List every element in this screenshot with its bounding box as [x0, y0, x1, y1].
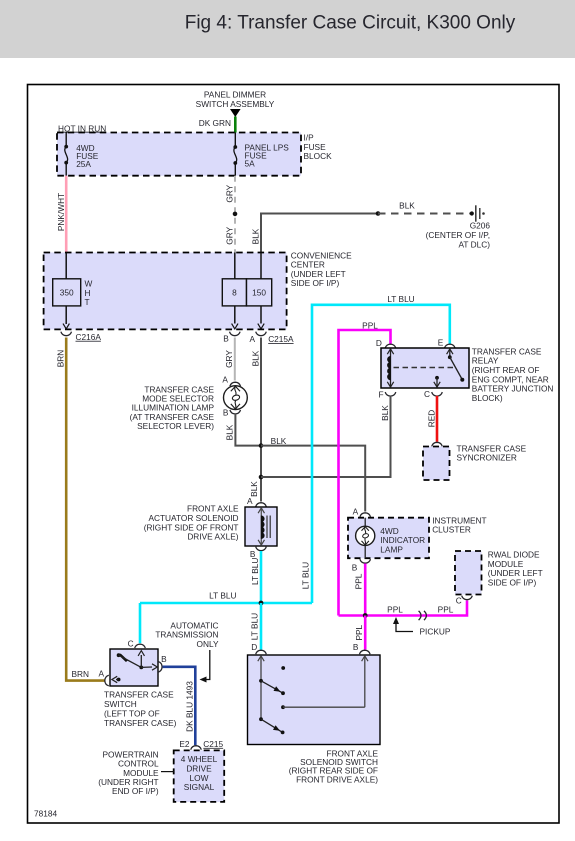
lamp 4WD indicator lamp [356, 518, 375, 559]
node: I/P FUSE BLOCK label [304, 133, 333, 162]
svg-text:78184: 78184 [34, 809, 57, 819]
svg-text:BLK: BLK [249, 481, 259, 497]
wire DK GRN from panel dimmer switch to panel lps fuse [234, 117, 237, 133]
svg-text:T: T [85, 297, 90, 307]
node: FRONT AXLE SOLENOID SWITCH label [289, 748, 379, 784]
wire DK BLU 1493 from switch pin B to PCM [163, 667, 196, 746]
wire PPL from instrument cluster pin B to junction [364, 564, 367, 616]
svg-text:SIDE OF I/P): SIDE OF I/P) [291, 278, 340, 288]
node: RWAL DIODE MODULE label [488, 550, 543, 588]
svg-text:5A: 5A [245, 158, 256, 168]
svg-text:350: 350 [60, 287, 74, 297]
transfer case switch internals [112, 651, 157, 683]
svg-text:LT BLU: LT BLU [300, 562, 310, 589]
svg-text:E2: E2 [179, 739, 190, 749]
svg-text:DRIVE AXLE): DRIVE AXLE) [187, 532, 238, 542]
wires into fuses 8 and 150 inside convenience center [234, 253, 236, 279]
svg-text:BRN: BRN [72, 669, 90, 679]
svg-text:BLK: BLK [380, 405, 390, 421]
relay actuation dashed link [394, 367, 454, 369]
svg-text:C216A: C216A [76, 332, 102, 342]
wire with arrow from 350 to C216A [65, 306, 67, 324]
connector C216A [61, 332, 72, 336]
title bar [0, 0, 575, 58]
svg-text:FRONT DRIVE AXLE): FRONT DRIVE AXLE) [296, 774, 378, 784]
svg-text:DK BLU 1493: DK BLU 1493 [184, 681, 194, 732]
node: front axle actuator solenoid label [144, 504, 239, 542]
svg-text:DK GRN: DK GRN [199, 118, 231, 128]
transfer case syncronizer connector [432, 442, 443, 446]
relay U1 transfer case relay box [381, 348, 469, 388]
svg-text:B: B [223, 407, 229, 417]
node: WHT marking [85, 279, 93, 307]
svg-text:BRN: BRN [55, 350, 65, 368]
wire BLK from convenience center up to ground run [261, 214, 378, 253]
svg-text:PNK/WHT: PNK/WHT [56, 193, 66, 231]
inline connector on PPL wire [419, 611, 421, 620]
svg-text:PPL: PPL [438, 605, 454, 615]
svg-text:A: A [353, 507, 359, 517]
svg-text:LT BLU: LT BLU [209, 590, 236, 600]
svg-text:D: D [251, 642, 257, 652]
svg-text:150: 150 [252, 287, 266, 297]
node: PICKUP callout [393, 617, 451, 636]
wire RED from relay pin C to syncronizer [436, 396, 439, 442]
solenoid L1 front axle actuator solenoid box [245, 507, 277, 546]
node: feed triangle from panel dimmer switch [230, 109, 241, 117]
svg-text:SWITCH ASSEMBLY: SWITCH ASSEMBLY [196, 99, 275, 109]
wire LT BLU from solenoid pin B to junction [260, 551, 263, 603]
svg-text:D: D [376, 338, 382, 348]
instrument cluster (dashed box) [348, 518, 429, 559]
svg-text:8: 8 [232, 287, 237, 297]
svg-text:CLUSTER: CLUSTER [432, 525, 471, 535]
node: AUTOMATIC TRANSMISSION ONLY callout [155, 620, 219, 682]
svg-text:BLK: BLK [225, 424, 235, 440]
junction dot BLK at 445.6 [259, 443, 264, 448]
svg-text:A: A [99, 668, 105, 678]
relay switch blade [434, 349, 465, 388]
ground G206 [426, 205, 491, 249]
wire BLK dashed to G206 [378, 213, 470, 215]
svg-text:SWITCH: SWITCH [104, 699, 137, 709]
convenience center (dashed box) [44, 253, 287, 330]
fuse element 150 [247, 279, 272, 306]
connector C215A pin A [256, 332, 267, 336]
svg-text:C215A: C215A [268, 334, 294, 344]
junction dot LT BLU [259, 601, 264, 606]
wire GRY from C215A pin B to illumination lamp [234, 338, 236, 381]
svg-text:PANEL DIMMER: PANEL DIMMER [204, 89, 266, 99]
svg-text:RED: RED [426, 410, 436, 428]
junction dot PPL [363, 613, 368, 618]
svg-text:A: A [250, 334, 256, 344]
switch S2 front axle solenoid switch box [248, 655, 381, 745]
wire PPL from relay pin D [339, 330, 391, 616]
PCM 4 wheel drive low signal (dashed box) [174, 750, 225, 802]
svg-text:BLOCK): BLOCK) [472, 393, 503, 403]
node: TRANSFER CASE SWITCH label [104, 690, 177, 729]
svg-text:GRY: GRY [224, 350, 234, 368]
wire BLK branch to instrument cluster pin A [261, 446, 365, 512]
svg-text:TRANSFER CASE: TRANSFER CASE [104, 690, 174, 700]
leader line from MODULE to PCM box [161, 771, 174, 773]
svg-text:GRY: GRY [224, 226, 234, 244]
svg-text:SIDE OF I/P): SIDE OF I/P) [488, 577, 537, 587]
node: TRANSFER CASE SYNCRONIZER label [457, 443, 527, 462]
wire BRN from C216A to transfer case switch [66, 338, 104, 681]
svg-text:C: C [424, 389, 430, 399]
svg-text:LT BLU: LT BLU [250, 558, 260, 585]
svg-text:B: B [250, 549, 256, 559]
node: transfer case mode selector illumination lamp label [130, 384, 215, 431]
svg-text:BLK: BLK [399, 201, 415, 211]
wire LT BLU top run from relay pin E [312, 305, 450, 603]
fuse element 350 [53, 279, 81, 306]
I/P fuse block (dashed box) [57, 133, 301, 176]
svg-text:LAMP: LAMP [380, 544, 403, 554]
svg-text:AT DLC): AT DLC) [458, 239, 490, 249]
lamp transfer case mode selector illumination lamp [224, 386, 248, 410]
svg-text:GRY: GRY [224, 184, 234, 202]
wire PPL down to front axle solenoid switch pin B [364, 616, 367, 650]
RWAL diode module (dashed box) [455, 551, 482, 595]
svg-text:F: F [378, 389, 383, 399]
svg-text:SYNCRONIZER: SYNCRONIZER [457, 453, 517, 463]
svg-text:C: C [128, 639, 134, 649]
node: POWERTRAIN CONTROL MODULE label [98, 749, 159, 796]
wire with arrow from 8 to C215A pin B [234, 306, 236, 324]
wire LT BLU horizontal run [140, 602, 312, 605]
fuse 4WD FUSE 25A [64, 133, 98, 176]
wire LT BLU down to front axle solenoid switch pin D [260, 603, 263, 650]
node: CONVENIENCE CENTER label [291, 250, 352, 288]
svg-text:PPL: PPL [354, 624, 364, 640]
svg-text:END OF I/P): END OF I/P) [112, 786, 159, 796]
wire LT BLU down to transfer case switch pin C [139, 603, 142, 643]
svg-text:PPL: PPL [354, 573, 364, 589]
wire BLK from lamp pin B down to junction [235, 414, 261, 446]
svg-text:BLOCK: BLOCK [304, 151, 333, 161]
wire with arrow from 150 to C215A pin A [260, 306, 262, 324]
transfer case syncronizer (dashed box) [423, 447, 450, 481]
junction dot BLK at 477 [259, 475, 264, 480]
svg-text:ONLY: ONLY [197, 639, 219, 649]
svg-text:C: C [456, 596, 462, 606]
wire BLK trunk from C215A pin A down to front axle actuator solenoid [260, 338, 262, 502]
svg-text:BLK: BLK [271, 436, 287, 446]
wire PPL horizontal run to RWAL diode module [339, 601, 468, 616]
svg-text:LT BLU: LT BLU [249, 613, 259, 640]
junction dot on BLK ground run [376, 211, 381, 216]
relay coil [387, 349, 393, 388]
svg-text:25A: 25A [76, 159, 91, 169]
svg-text:C215: C215 [203, 739, 223, 749]
svg-text:E: E [438, 338, 444, 348]
wire BLK branch to transfer case relay pin F [261, 397, 391, 477]
svg-text:PICKUP: PICKUP [420, 626, 451, 636]
svg-text:B: B [161, 654, 167, 664]
svg-text:SIGNAL: SIGNAL [184, 782, 215, 792]
svg-text:B: B [352, 562, 358, 572]
node: INSTRUMENT CLUSTER label [432, 515, 486, 534]
connector C215A pin B [230, 332, 241, 336]
svg-text:A: A [222, 374, 228, 384]
svg-text:BLK: BLK [250, 228, 260, 244]
svg-text:PPL: PPL [387, 605, 403, 615]
junction dot on GRY wire [233, 212, 238, 217]
fuse PANEL LPS FUSE 5A [233, 133, 289, 176]
wire GRY dashed from panel lps fuse to convenience center [234, 176, 236, 253]
svg-text:PPL: PPL [362, 321, 378, 331]
node: TRANSFER CASE RELAY label [472, 346, 554, 403]
svg-text:A: A [247, 496, 253, 506]
svg-text:TRANSFER CASE): TRANSFER CASE) [104, 718, 177, 728]
svg-text:B: B [223, 334, 229, 344]
node: 4WD INDICATOR LAMP label [380, 526, 425, 555]
switch S1 transfer case switch box [110, 649, 158, 686]
svg-text:Fig 4: Transfer Case Circuit,: Fig 4: Transfer Case Circuit, K300 Only [185, 13, 516, 34]
node: panel dimmer switch assembly label [196, 89, 275, 109]
wire into fuse 350 inside convenience center [65, 253, 67, 279]
solenoid coil internals [258, 508, 270, 546]
fuse element 8 [222, 279, 246, 306]
svg-text:BLK: BLK [250, 350, 260, 366]
svg-text:SELECTOR LEVER): SELECTOR LEVER) [137, 421, 214, 431]
svg-text:(LEFT TOP OF: (LEFT TOP OF [104, 709, 160, 719]
svg-text:LT BLU: LT BLU [387, 294, 414, 304]
svg-text:B: B [353, 642, 359, 652]
front axle solenoid switch internals [258, 656, 368, 735]
wire PNK/WHT from 4WD fuse to convenience center [65, 176, 68, 253]
